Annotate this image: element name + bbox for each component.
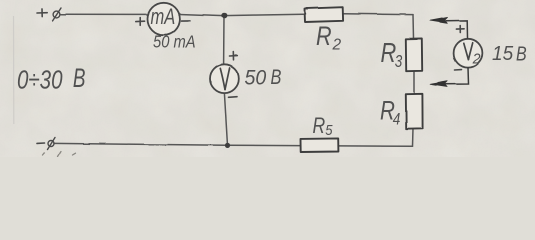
svg-text:50: 50 (245, 67, 267, 90)
svg-text:3: 3 (395, 52, 403, 71)
svg-text:2: 2 (332, 37, 342, 54)
svg-text:50 mA: 50 mA (153, 32, 196, 52)
svg-text:0÷30: 0÷30 (17, 65, 63, 94)
svg-text:R: R (381, 37, 397, 68)
svg-text:4: 4 (393, 110, 401, 129)
svg-text:R: R (313, 114, 326, 139)
svg-text:B: B (271, 65, 282, 88)
svg-text:2: 2 (472, 51, 481, 67)
svg-text:15: 15 (492, 43, 513, 66)
svg-text:B: B (73, 63, 86, 93)
svg-text:R: R (316, 22, 332, 52)
svg-text:5: 5 (325, 122, 333, 138)
svg-text:mA: mA (151, 5, 176, 30)
svg-text:B: B (516, 43, 527, 65)
